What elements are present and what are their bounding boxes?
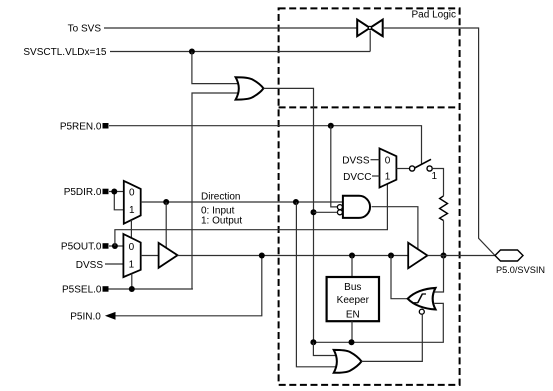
- wire M1 select to M2: [130, 220, 132, 238]
- svg-text:DVSS: DVSS: [76, 260, 104, 271]
- node bus keeper top junction: [349, 253, 355, 259]
- wire SVSCTL.VLDx=15: [110, 31, 370, 52]
- svg-text:1: 1: [129, 205, 135, 216]
- svg-text:P5OUT.0: P5OUT.0: [61, 242, 102, 253]
- label P5DIR.0: [64, 187, 102, 198]
- wire OR U3 output to schmitt enable bubble: [362, 314, 423, 361]
- dashed Pad Logic box: [279, 8, 460, 385]
- node AND input junction: [311, 209, 317, 215]
- wire switch to resistor: [432, 169, 443, 196]
- wire OR output down to bottom: [264, 88, 314, 342]
- wire To SVS: [104, 27, 357, 29]
- node resistor junction: [441, 253, 447, 259]
- node P5IN junction: [259, 253, 265, 259]
- node P5DIR junction: [111, 189, 117, 195]
- wire M3 output to switch: [396, 168, 409, 170]
- wire DVSS stub: [371, 159, 380, 161]
- label P5.0/SVSIN: [496, 265, 545, 275]
- svg-text:EN: EN: [346, 310, 360, 321]
- svg-text:P5IN.0: P5IN.0: [70, 312, 101, 323]
- svg-text:To SVS: To SVS: [68, 24, 102, 35]
- label P5OUT.0: [61, 242, 102, 253]
- svg-text:0: 0: [129, 187, 135, 198]
- wire pad line (buffer B1 to pad driver B2): [178, 255, 409, 257]
- wire resistor to pad line: [443, 221, 445, 256]
- node SVSCTL junction: [189, 49, 195, 55]
- svg-text:Pad Logic: Pad Logic: [412, 10, 456, 21]
- node Direction-keeper junction: [293, 199, 299, 205]
- svg-text:DVSS: DVSS: [342, 156, 370, 167]
- node keeper line mid junction: [349, 339, 355, 345]
- node schmitt feedback junction: [388, 253, 394, 259]
- wire DVCC stub: [372, 175, 380, 177]
- resistor R1: [440, 196, 448, 221]
- label Direction legend: [201, 192, 242, 227]
- svg-text:P5.0/SVSIN: P5.0/SVSIN: [496, 265, 545, 275]
- bus keeper box: [327, 277, 379, 321]
- wire P5REN branch to AND input: [331, 126, 338, 207]
- label DVSS (pull mux): [342, 156, 370, 167]
- svg-text:1: 1: [129, 259, 135, 270]
- wire DVSS to M2: [105, 263, 123, 265]
- label SVSCTL.VLDx=15: [23, 47, 107, 58]
- wire keeper OR top input: [313, 342, 339, 355]
- wire P5SEL.0 up to OR bottom input: [192, 93, 240, 289]
- label Pad Logic: [412, 10, 456, 21]
- node P5SEL junction: [129, 286, 135, 292]
- label P5SEL.0: [62, 285, 102, 296]
- wire bus keeper bottom connection: [351, 321, 353, 342]
- and-gate U2 driver enable: [337, 196, 370, 218]
- node keeper line left junction: [310, 339, 316, 345]
- or-gate U3 keeper enable: [334, 350, 362, 373]
- wire P5OUT.0: [109, 245, 123, 247]
- wire bus keeper top connection: [351, 256, 353, 278]
- wire schmitt top input from pad line: [435, 256, 444, 293]
- svg-text:P5DIR.0: P5DIR.0: [64, 187, 102, 198]
- pad P5.0/SVSIN: [495, 250, 523, 261]
- label P5IN.0: [70, 312, 101, 323]
- svg-text:SVSCTL.VLDx=15: SVSCTL.VLDx=15: [23, 47, 107, 58]
- terminal square P5DIR.0: [103, 189, 109, 195]
- wire schmitt output feedback: [391, 256, 408, 299]
- transmission gate TG1 (To SVS switch): [357, 20, 383, 37]
- svg-text:Bus: Bus: [344, 282, 361, 293]
- arrow P5IN.0: [105, 312, 116, 320]
- terminal square P5SEL.0: [103, 286, 109, 292]
- wire P5REN.0: [109, 126, 422, 165]
- label P5REN.0: [60, 122, 102, 133]
- wire P5SEL.0: [109, 288, 193, 290]
- wire AND bottom input: [314, 211, 338, 213]
- switch S1 resistor enable: [410, 159, 433, 171]
- wire M2 output to buffer B1: [141, 255, 159, 257]
- wire B2 output to pad: [427, 255, 495, 257]
- wire TG1 to right edge and down to pad: [383, 28, 495, 256]
- svg-text:P5REN.0: P5REN.0: [60, 122, 102, 133]
- mux M3 DVSS/DVCC pull select: [380, 148, 397, 187]
- svg-text:P5SEL.0: P5SEL.0: [62, 285, 102, 296]
- label To SVS: [68, 24, 102, 35]
- wire P5DIR.0: [109, 192, 124, 210]
- label DVCC: [343, 172, 371, 183]
- svg-text:1: Output: 1: Output: [201, 215, 242, 226]
- wire Direction line: [141, 201, 343, 203]
- node P5REN junction: [328, 123, 334, 129]
- svg-text:1: 1: [385, 171, 391, 182]
- wire AND output to B2 enable: [372, 207, 418, 249]
- wire SVSCTL to OR top input: [192, 52, 240, 84]
- node Direction-enable junction: [163, 199, 169, 205]
- wire M2 select to P5SEL: [131, 274, 133, 289]
- terminal square P5REN.0: [103, 123, 109, 129]
- label switch 1: [432, 171, 438, 182]
- svg-text:1: 1: [432, 171, 438, 182]
- terminal square P5OUT.0: [103, 243, 109, 249]
- schmitt trigger K1 bus keeper driver: [408, 288, 436, 314]
- or-gate U1 (P5SEL | SVSCTL): [236, 77, 264, 99]
- wire P5OUT to pull mux select: [115, 184, 388, 246]
- wire enable to output buffer B1: [165, 202, 167, 249]
- svg-text:Direction: Direction: [201, 192, 240, 203]
- wire schmitt bottom input: [313, 303, 443, 342]
- wire P5IN.0: [113, 256, 262, 316]
- svg-text:Keeper: Keeper: [337, 295, 370, 306]
- buffer B2 pad output driver: [408, 243, 427, 269]
- wire Direction down to keeper OR input: [296, 202, 339, 367]
- mux M1 P5DIR direction select: [124, 181, 141, 224]
- node P5OUT junction: [112, 243, 118, 249]
- label DVSS: [76, 260, 104, 271]
- buffer B1 output driver small: [159, 243, 178, 268]
- mux M2 P5OUT select: [123, 234, 140, 277]
- svg-text:DVCC: DVCC: [343, 172, 371, 183]
- svg-text:0: 0: [385, 155, 391, 166]
- svg-text:0: 0: [129, 242, 135, 253]
